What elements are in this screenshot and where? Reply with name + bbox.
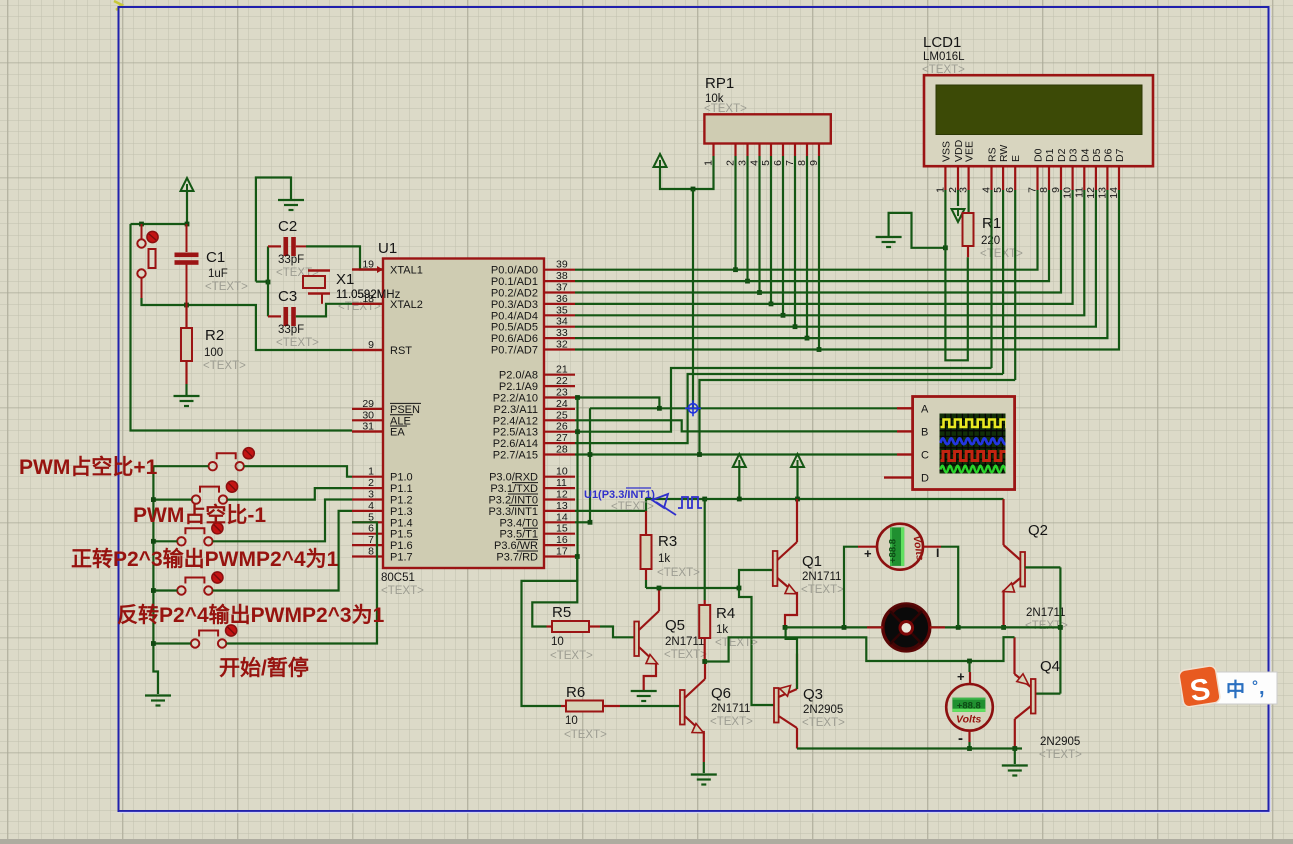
scope trace green sine wave — [941, 466, 1009, 473]
svg-text:P0.4/AD4: P0.4/AD4 — [491, 310, 538, 322]
wire P3.7 to R6 — [522, 557, 578, 707]
transistor Q4 body — [1031, 679, 1036, 714]
wire pin stub RST — [352, 349, 383, 351]
motor M — [883, 604, 930, 651]
svg-text:P1.4: P1.4 — [390, 517, 413, 529]
svg-text:33: 33 — [556, 327, 568, 339]
svg-text:80C51: 80C51 — [381, 572, 415, 584]
wire node to Q3 base — [739, 588, 774, 705]
wire VM2 - stub — [968, 731, 970, 742]
wire reset node to RST — [142, 298, 353, 350]
wire P2.5 to LCD RS — [575, 368, 992, 432]
junction base tie / motor row — [1058, 625, 1063, 630]
transistor Q3 body — [774, 688, 779, 723]
signal generator probe glyph — [652, 494, 702, 515]
wire key3 left — [153, 540, 177, 542]
wire motor row — [785, 626, 1060, 628]
wire Q2 emitter down — [1002, 591, 1005, 627]
resistor R1 body — [963, 213, 974, 246]
svg-text:14: 14 — [1108, 187, 1120, 199]
pin 21 stub — [544, 374, 575, 376]
wire bottom rail — [797, 747, 1022, 749]
svg-text:+88.8: +88.8 — [888, 539, 899, 563]
wire to Q1 base — [739, 570, 773, 588]
pin 19 stub — [352, 268, 383, 270]
LCD pin 10 stub — [1071, 166, 1073, 190]
pin 35 stub — [544, 314, 575, 316]
LCD pin 2 stub — [957, 166, 959, 190]
svg-text:LCD1: LCD1 — [923, 34, 961, 51]
svg-text:P3.3/INT1: P3.3/INT1 — [488, 506, 538, 518]
oscilloscope screen — [940, 414, 1006, 474]
svg-text:PWM占空比+1: PWM占空比+1 — [19, 455, 158, 479]
junction VM2 - / bottom rail — [967, 746, 972, 751]
wire Q5 emitter down — [644, 663, 656, 690]
pin 15 stub — [544, 533, 575, 535]
svg-text:<TEXT>: <TEXT> — [802, 717, 845, 729]
LCD pin 9 stub — [1060, 166, 1062, 190]
svg-text:P1.7: P1.7 — [390, 552, 413, 564]
svg-text:33pF: 33pF — [278, 254, 304, 266]
svg-text:<TEXT>: <TEXT> — [664, 649, 707, 661]
wire R3 top stub — [645, 511, 647, 535]
wire RP1 pin9 to P0.7 — [818, 156, 820, 350]
pin 33 stub — [544, 337, 575, 339]
wire VM2 + wire — [968, 661, 970, 672]
pin 14 stub — [544, 521, 575, 523]
svg-text:Q3: Q3 — [803, 686, 823, 703]
svg-text:<TEXT>: <TEXT> — [922, 64, 965, 76]
pin 3 stub — [352, 498, 383, 500]
pin 30 stub — [352, 419, 383, 421]
pin 7 stub — [352, 544, 383, 546]
wire VSS to ground — [889, 213, 946, 248]
junction P2.2 jog / A line — [657, 406, 662, 411]
wire VM1 + to motor row — [844, 547, 858, 628]
pin 36 stub — [544, 303, 575, 305]
wire riser P2.2 to P3.7 — [576, 398, 578, 557]
svg-text:1uF: 1uF — [208, 268, 228, 280]
junction VSS column — [943, 245, 948, 250]
wire R4 top stub — [704, 600, 706, 605]
LCD screen — [936, 85, 1142, 135]
svg-text:14: 14 — [556, 511, 568, 523]
svg-text:P3.7/RD: P3.7/RD — [496, 552, 538, 564]
LCD pin 13 stub — [1106, 166, 1108, 190]
wire P2.4 to scope B — [575, 420, 897, 431]
svg-text:<TEXT>: <TEXT> — [657, 567, 700, 579]
wire R6 left stub — [561, 705, 566, 707]
wire gnd stem — [1014, 749, 1016, 765]
junction VCC rail tap — [691, 187, 696, 192]
junction rail / arrow1 — [737, 497, 742, 502]
wire P0.3 bus row to LCD D3 — [575, 190, 1073, 304]
svg-text:34: 34 — [556, 316, 568, 328]
svg-text:6: 6 — [368, 523, 374, 535]
junction RP1 pin7 / P0.5 — [793, 324, 798, 329]
resistor R5 body — [552, 621, 589, 632]
svg-text:EA: EA — [390, 427, 405, 439]
ground LCD VSS — [876, 237, 902, 247]
LCD pin 11 stub — [1083, 166, 1085, 190]
svg-text:<TEXT>: <TEXT> — [381, 585, 424, 597]
junction motor row / VM1+ — [842, 625, 847, 630]
svg-text:<TEXT>: <TEXT> — [205, 281, 248, 293]
svg-text:中: 中 — [1226, 678, 1245, 701]
wire R3 bottom stub — [645, 569, 647, 580]
wire base tie vertical — [1059, 567, 1061, 693]
transistor Q6 body — [680, 690, 685, 725]
svg-text:P3.0/RXD: P3.0/RXD — [489, 472, 538, 484]
svg-text:P1.0: P1.0 — [390, 472, 413, 484]
svg-text:12: 12 — [556, 489, 568, 501]
LCD pin 3 stub — [967, 166, 969, 190]
wire buttons common to ground — [153, 466, 158, 694]
wire key2 left — [153, 499, 191, 501]
wire reset top rail — [131, 223, 188, 225]
pin 12 stub — [544, 498, 575, 500]
svg-text:12: 12 — [1085, 187, 1097, 199]
svg-text:<TEXT>: <TEXT> — [564, 729, 607, 741]
svg-text:<TEXT>: <TEXT> — [611, 501, 654, 513]
svg-text:A: A — [921, 403, 929, 415]
junction RP1 pin4 / P0.2 — [757, 290, 762, 295]
wire VCC tap down to scope A — [692, 189, 694, 408]
svg-text:X1: X1 — [336, 271, 354, 288]
wire left vertical to EA — [131, 224, 353, 431]
wire P2.7 to scope C — [700, 453, 898, 455]
pin 11 stub — [544, 487, 575, 489]
svg-text:RW: RW — [998, 145, 1010, 162]
RP1 pin 5 stub — [770, 144, 772, 157]
pin 31 stub — [352, 430, 383, 432]
wire arrow to rail — [796, 467, 798, 499]
junction C1 bottom / reset node — [184, 303, 189, 308]
svg-text:P0.2/AD2: P0.2/AD2 — [491, 288, 538, 300]
svg-text:P3.5/T1: P3.5/T1 — [499, 529, 538, 541]
capacitor C1 — [186, 224, 188, 305]
pin 37 stub — [544, 291, 575, 293]
RP1 pin 7 stub — [794, 144, 796, 157]
oscilloscope input D stub — [897, 476, 913, 478]
pin 1 stub — [352, 476, 383, 478]
pin 27 stub — [544, 442, 575, 444]
svg-text:21: 21 — [556, 364, 568, 376]
svg-text:P2.6/A14: P2.6/A14 — [493, 438, 538, 450]
wire RP1 pin6 to P0.4 — [782, 156, 784, 315]
LCD pin 5 stub — [1002, 166, 1004, 190]
wire motor right terminal — [930, 626, 945, 628]
wire R6 to Q6 base — [620, 705, 681, 707]
junction rail / arrow2 / Q1 — [795, 497, 800, 502]
svg-text:4: 4 — [368, 500, 374, 512]
pin 39 stub — [544, 269, 575, 271]
ground bottom right — [1002, 766, 1028, 776]
junction Q2 emitter / motor row — [1001, 625, 1006, 630]
wire RP1 pin4 to P0.2 — [758, 156, 760, 293]
svg-text:P3.2/INT0: P3.2/INT0 — [488, 495, 538, 507]
RP1 pin 9 stub — [818, 144, 820, 157]
wire VCC arrow to node — [186, 191, 188, 224]
svg-text:Volts: Volts — [956, 714, 981, 726]
svg-text:<TEXT>: <TEXT> — [710, 716, 753, 728]
svg-text:<TEXT>: <TEXT> — [203, 360, 246, 372]
svg-text:11: 11 — [1073, 187, 1085, 198]
wire X1 lower plate link — [321, 294, 323, 304]
svg-text:R5: R5 — [552, 604, 571, 621]
svg-text:D7: D7 — [1114, 148, 1126, 162]
RP1 pin 4 stub — [758, 144, 760, 157]
svg-text:D4: D4 — [1079, 148, 1091, 162]
svg-text:39: 39 — [556, 259, 568, 271]
wire P0.7 bus row to LCD D7 — [575, 190, 1119, 350]
junction P3.4 node — [588, 520, 593, 525]
button key 2 — [192, 487, 227, 504]
svg-text:15: 15 — [556, 523, 568, 535]
svg-text:P3.1/TXD: P3.1/TXD — [490, 483, 538, 495]
svg-text:<TEXT>: <TEXT> — [704, 103, 747, 115]
svg-text:24: 24 — [556, 398, 568, 410]
corner origin mark — [114, 1, 122, 10]
svg-text:23: 23 — [556, 387, 568, 399]
svg-text:P3.4/T0: P3.4/T0 — [499, 517, 538, 529]
button key 1 — [209, 453, 244, 470]
wire RP1 pin2 to P0.0 — [734, 156, 736, 270]
pin 26 stub — [544, 431, 575, 433]
wire Q6 collector up — [704, 662, 706, 677]
wire R4 bottom stub — [704, 638, 706, 662]
wire P3.4 wire — [575, 521, 590, 523]
wire Q5 collector up — [658, 588, 660, 607]
svg-text:9: 9 — [1050, 187, 1062, 193]
svg-text:R4: R4 — [716, 605, 735, 622]
junction common / key3 — [151, 539, 156, 544]
junction P2.7 / E riser — [697, 452, 702, 457]
power terminal VCC arrow (bridge right) — [791, 454, 804, 467]
wire Q3 emitter riser — [786, 627, 797, 689]
svg-text:VEE: VEE — [964, 141, 976, 162]
svg-text:7: 7 — [1027, 187, 1039, 193]
wire P3.3 INT1 to rail — [575, 499, 705, 511]
junction Q1 base node — [737, 586, 742, 591]
scope trace yellow square wave — [941, 420, 1012, 428]
voltmeter VM1 — [877, 524, 923, 570]
RP1 pin 3 stub — [746, 144, 748, 157]
wire R5 right stub — [589, 625, 600, 627]
pin 28 stub — [544, 453, 575, 455]
junction Q5 coll / R3 — [657, 586, 662, 591]
svg-text:VSS: VSS — [940, 141, 952, 162]
svg-text:P1.1: P1.1 — [390, 483, 413, 495]
pin 34 stub — [544, 326, 575, 328]
watermark logo (input method bar) — [1178, 665, 1277, 709]
svg-text:10: 10 — [1062, 187, 1074, 199]
svg-text:27: 27 — [556, 432, 568, 444]
button key 5 — [191, 631, 226, 648]
wire VM1 + stub — [858, 546, 877, 548]
wire P0.2 bus row to LCD D2 — [575, 190, 1061, 293]
svg-text:31: 31 — [362, 421, 374, 433]
svg-text:R6: R6 — [566, 684, 585, 701]
button key 4 — [177, 578, 212, 595]
oscilloscope body — [913, 397, 1015, 490]
LCD pin 7 stub — [1036, 166, 1038, 190]
junction INT1 / R4 / rail — [702, 497, 707, 502]
wire Q6 emitter down — [702, 732, 704, 762]
wire key2 to P1.1 — [227, 488, 352, 500]
wire RW column — [1002, 190, 1004, 374]
wire crystal caps common to ground — [256, 178, 291, 282]
wire Q2 base — [1025, 566, 1060, 568]
wire R6 right stub — [603, 705, 620, 707]
svg-text:PWM占空比-1: PWM占空比-1 — [133, 503, 266, 527]
svg-text:10: 10 — [565, 715, 578, 727]
svg-text:P2.1/A9: P2.1/A9 — [499, 381, 538, 393]
svg-text:B: B — [921, 426, 928, 438]
resistor R2 body — [181, 328, 192, 361]
svg-text:8: 8 — [1038, 187, 1050, 193]
wire key4 left — [153, 589, 177, 591]
LCD pin 6 stub — [1014, 166, 1016, 190]
pin 13 stub — [544, 510, 575, 512]
junction Q1 emitter / motor row — [783, 625, 788, 630]
junction under row / VM2+ — [967, 659, 972, 664]
junction rail / Q4 coll / gnd — [1012, 746, 1017, 751]
svg-text:P2.2/A10: P2.2/A10 — [493, 393, 538, 405]
junction RP1 pin6 / P0.4 — [781, 313, 786, 318]
svg-text:正转P2^3输出PWMP2^4为1: 正转P2^3输出PWMP2^4为1 — [71, 547, 339, 571]
svg-text:+: + — [957, 669, 965, 684]
wire pin stub XTAL2 — [352, 303, 383, 305]
svg-text:P3.6/WR: P3.6/WR — [494, 540, 538, 552]
LCD pin 4 stub — [990, 166, 992, 190]
svg-text:37: 37 — [556, 282, 568, 294]
svg-text:D2: D2 — [1056, 148, 1068, 162]
ground crystal caps — [278, 200, 304, 210]
LCD pin 12 stub — [1095, 166, 1097, 190]
svg-text:22: 22 — [556, 375, 568, 387]
pin 38 stub — [544, 280, 575, 282]
pin 6 stub — [352, 533, 383, 535]
wire Q6 emitter gnd wire — [703, 762, 705, 773]
svg-text:RP1: RP1 — [705, 75, 734, 92]
svg-text:8: 8 — [368, 546, 374, 558]
svg-text:P2.4/A12: P2.4/A12 — [493, 415, 538, 427]
svg-text:P0.6/AD6: P0.6/AD6 — [491, 333, 538, 345]
svg-text:11.0592MHz: 11.0592MHz — [336, 289, 401, 301]
resistor R6 body — [566, 701, 603, 712]
svg-text:D3: D3 — [1068, 148, 1080, 162]
wire R3 to node — [645, 580, 647, 588]
junction common / key2 — [151, 497, 156, 502]
pin 9 stub — [352, 349, 383, 351]
svg-text:R3: R3 — [658, 533, 677, 550]
chip U1 80C51 body — [383, 259, 544, 569]
oscilloscope input B stub — [897, 430, 913, 432]
svg-text:C3: C3 — [278, 288, 297, 305]
svg-text:U1: U1 — [378, 240, 397, 257]
wire VCC rail — [705, 498, 1004, 500]
transistor Q2 body — [1020, 552, 1025, 587]
svg-text:2N1711: 2N1711 — [711, 703, 750, 715]
svg-text:28: 28 — [556, 444, 568, 456]
wire RP1 pin3 to P0.1 — [746, 156, 748, 281]
resistor pack RP1 body — [704, 114, 830, 143]
pin 17 stub — [544, 555, 575, 557]
svg-text:°: ° — [1252, 678, 1258, 695]
wire P0.6 bus row to LCD D6 — [575, 190, 1107, 338]
pin 5 stub — [352, 521, 383, 523]
svg-text:7: 7 — [368, 534, 374, 546]
svg-text:P0.1/AD1: P0.1/AD1 — [491, 276, 538, 288]
wire P2.6 to LCD RW — [575, 374, 1003, 443]
svg-text:D6: D6 — [1102, 148, 1114, 162]
junction caps common — [266, 280, 271, 285]
wire RP1 pin8 to P0.6 — [806, 156, 808, 338]
resistor R3 body — [641, 535, 652, 569]
wire into C3 — [268, 315, 281, 317]
svg-text:13: 13 — [556, 500, 568, 512]
wire P0.5 bus row to LCD D5 — [575, 190, 1096, 327]
wire key5 left — [153, 642, 191, 644]
power terminal VCC arrow (reset circuit) — [181, 178, 194, 191]
svg-text:D0: D0 — [1033, 148, 1045, 162]
pin 4 stub — [352, 510, 383, 512]
power terminal VCC arrow (RP1) — [654, 154, 667, 167]
svg-text:2: 2 — [368, 477, 374, 489]
pin 24 stub — [544, 408, 575, 410]
wire R2 bottom stub — [185, 361, 187, 384]
junction reset rail / button — [139, 222, 144, 227]
transistor Q5 body — [634, 622, 639, 657]
wire C2-C3 left vertical — [267, 246, 269, 316]
RP1 pin 2 stub — [734, 144, 736, 157]
pin 8 stub — [352, 555, 383, 557]
svg-text:P1.6: P1.6 — [390, 540, 413, 552]
oscilloscope input A stub — [897, 407, 913, 409]
junction motor row / VM1- — [956, 625, 961, 630]
resistor R4 body — [699, 605, 710, 638]
RP1 pin 8 stub — [806, 144, 808, 157]
svg-text:<TEXT>: <TEXT> — [715, 637, 758, 649]
origin marker (blue) on scope A wire — [685, 400, 701, 416]
svg-text:C2: C2 — [278, 218, 297, 235]
LCD pin 14 stub — [1118, 166, 1120, 190]
svg-text:P1.2: P1.2 — [390, 495, 413, 507]
wire key1 left — [153, 465, 208, 467]
wire Q4 base — [1036, 692, 1061, 694]
wire VEE to R1 — [967, 190, 969, 213]
wire into C2 — [268, 245, 281, 247]
svg-text:2N2905: 2N2905 — [803, 704, 843, 716]
scope trace red square wave — [941, 452, 1013, 461]
pin 18 stub — [352, 303, 383, 305]
svg-text:38: 38 — [556, 270, 568, 282]
wire motor left terminal — [867, 626, 883, 628]
wire riser scope-A to P3.4 — [589, 408, 591, 522]
svg-text:9: 9 — [368, 339, 374, 351]
scope trace blue signal — [941, 438, 1007, 444]
junction P2.2 / riser — [575, 395, 580, 400]
svg-text:,: , — [1259, 677, 1265, 699]
wire under-motor row Q6c to Q4 emitter — [705, 637, 1015, 661]
svg-text:100: 100 — [204, 347, 223, 359]
crystal X1 — [303, 276, 325, 288]
svg-text:Q5: Q5 — [665, 617, 685, 634]
svg-text:LM016L: LM016L — [923, 51, 965, 63]
wire VSS column / R1 bottom loop — [945, 190, 967, 360]
wire R1 bottom stub — [967, 246, 969, 257]
